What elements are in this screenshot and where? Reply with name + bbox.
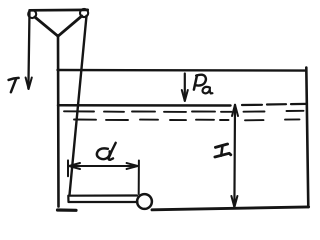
tank bottom right of roller: [152, 207, 309, 210]
label H (rotated 90deg): [215, 144, 227, 147]
bracket left arm: [35, 17, 58, 36]
right wall: [306, 68, 308, 208]
label d: [97, 148, 110, 159]
water dashes row 1 left: [64, 110, 232, 113]
water dashes right of H row 1: [244, 110, 304, 113]
tank bottom left stub: [58, 208, 77, 212]
water dashes row 2 left: [74, 119, 229, 122]
mast / tank left wall: [57, 36, 60, 207]
Pa arrow (down onto water surface): [184, 74, 186, 101]
d dimension line with arrowheads both ends: [69, 165, 138, 167]
tank rim: [58, 69, 307, 72]
bracket right arm: [58, 16, 82, 36]
water dashes right of H row 2: [245, 118, 300, 121]
label P: [194, 75, 197, 89]
water surface line: [58, 104, 231, 107]
label T: [9, 78, 19, 80]
right pulley: [80, 9, 88, 17]
label a (subscript of P): [203, 87, 210, 93]
gate plate (rectangle outline): [68, 196, 137, 203]
H dimension line with arrowheads both ends: [233, 105, 236, 207]
water dashes right of H: surface row: [242, 104, 307, 105]
d left extension tick: [67, 160, 69, 176]
rope with tension T, arrowhead down: [28, 11, 29, 89]
roller ball: [137, 194, 152, 209]
left pulley: [28, 10, 36, 18]
rope from right pulley to gate: [70, 16, 87, 195]
top crossbar: [30, 9, 88, 12]
d right extension line: [138, 161, 140, 195]
